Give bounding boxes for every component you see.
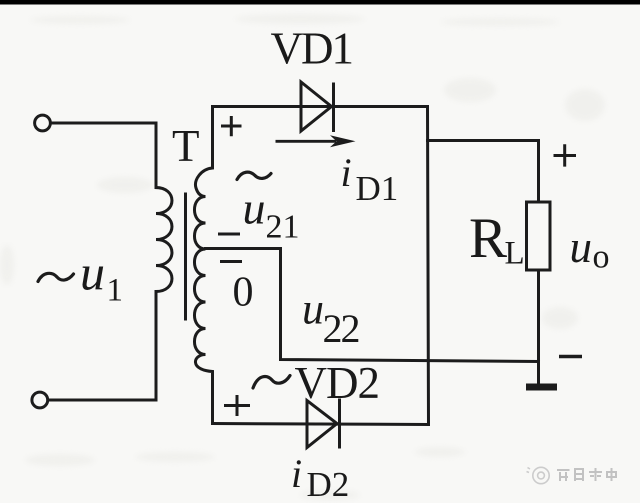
svg-text:D1: D1 — [356, 169, 399, 208]
svg-text:0: 0 — [233, 270, 254, 316]
svg-text:u: u — [302, 285, 324, 334]
svg-text:T: T — [172, 121, 200, 171]
svg-text:21: 21 — [266, 209, 300, 246]
svg-text:VD1: VD1 — [271, 24, 353, 74]
svg-text:i: i — [341, 150, 352, 195]
svg-text:o: o — [593, 239, 610, 276]
svg-text:u: u — [80, 245, 105, 301]
svg-text:VD2: VD2 — [295, 358, 380, 408]
svg-text:u: u — [570, 222, 593, 272]
svg-text:D2: D2 — [307, 465, 350, 503]
svg-text:L: L — [505, 236, 525, 272]
svg-text:u: u — [243, 183, 266, 234]
svg-text:R: R — [469, 207, 507, 270]
svg-text:22: 22 — [323, 306, 359, 351]
svg-text:i: i — [291, 451, 302, 496]
svg-text:1: 1 — [107, 273, 124, 309]
